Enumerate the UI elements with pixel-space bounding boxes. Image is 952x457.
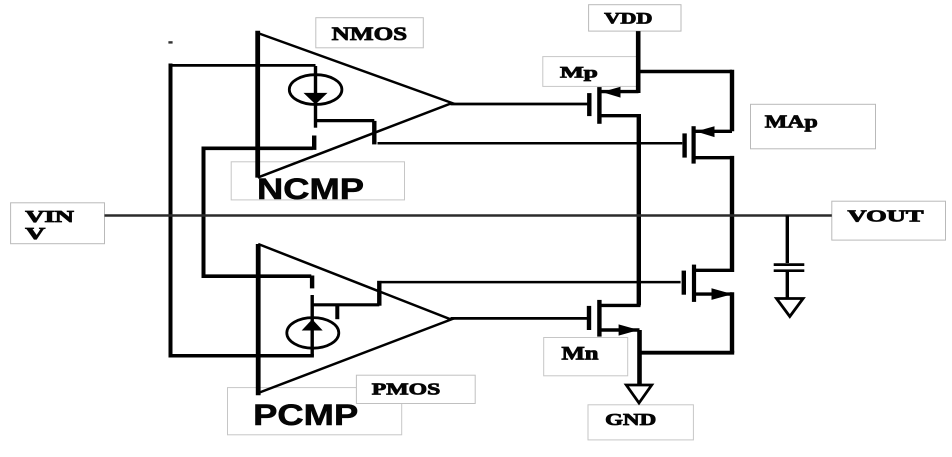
wire Mn source GND stem (637, 330, 642, 385)
label box GND (588, 405, 693, 440)
wire MAp drain down to VOUT rail and MAn (730, 156, 734, 272)
label box NMOS (316, 18, 424, 48)
gate bar A in NCMP (372, 121, 376, 144)
svg-text:VDD: VDD (604, 11, 652, 28)
wire VDD stem (636, 31, 641, 93)
label box MAp (751, 104, 876, 149)
wire v2 inner feedback (202, 147, 206, 279)
svg-text:PCMP: PCMP (253, 399, 358, 432)
wire VOUT rail (105, 214, 832, 216)
wire NCMP apex output to Mp gate (451, 103, 588, 106)
gate bar D in PCMP (377, 281, 381, 306)
comparator NCMP triangle (258, 31, 452, 178)
label box PMOS (356, 375, 475, 403)
current source I1 in NCMP (289, 66, 342, 128)
wire MAn source to GND stem (638, 351, 735, 355)
wire MAn source down (730, 292, 734, 352)
ground symbol at capacitor (777, 299, 804, 317)
label box Mn (544, 338, 628, 376)
svg-text:MAp: MAp (765, 111, 818, 131)
wire PCMP inner output to MAn gate (381, 281, 680, 284)
wire PCMP apex output to Mn gate (451, 317, 588, 320)
gate bar C in PCMP (310, 276, 314, 289)
wire capacitor branch (786, 216, 789, 264)
svg-text:PMOS: PMOS (372, 380, 441, 399)
label box VOUT (832, 201, 946, 240)
label box VIN (11, 203, 105, 244)
stray dash mark (168, 41, 172, 43)
transistor MAn (684, 265, 733, 302)
svg-text:Mp: Mp (560, 64, 598, 81)
transistor Mn (589, 300, 641, 337)
wire v2 to NCMP lower input (202, 147, 313, 151)
label box VDD (589, 5, 681, 31)
current source I2 in PCMP (287, 295, 339, 356)
ground symbol at Mn (626, 385, 651, 403)
capacitor C1 (774, 265, 805, 299)
gate bar B in NCMP (312, 136, 316, 150)
wire bottom from v1 to PCMP current source (169, 354, 314, 358)
svg-text:NCMP: NCMP (257, 173, 364, 206)
stub pin in PCMP (335, 305, 339, 319)
svg-text:VOUT: VOUT (848, 207, 924, 226)
svg-text:Mn: Mn (562, 345, 600, 365)
wire v1 left feedback (169, 64, 173, 358)
wire PCMP source node horizontal (311, 303, 380, 306)
svg-text:GND: GND (605, 410, 656, 429)
wire top input to NCMP current source (169, 64, 316, 67)
wire v2 to PCMP upper input (202, 274, 312, 278)
label box PCMP (228, 388, 402, 435)
transistor Mp (589, 87, 640, 124)
wire NCMP source node horizontal (314, 119, 374, 122)
comparator PCMP triangle (258, 244, 451, 395)
wire NCMP inner output to MAp gate (378, 142, 683, 145)
wire VDD to MAp source (636, 70, 732, 132)
transistor MAp (685, 126, 732, 163)
svg-text:NMOS: NMOS (332, 24, 408, 45)
svg-text:V: V (25, 224, 45, 243)
label box NCMP (231, 162, 404, 200)
label box Mp (543, 57, 639, 87)
wire output node vertical Mp drain to Mn drain (637, 114, 641, 305)
